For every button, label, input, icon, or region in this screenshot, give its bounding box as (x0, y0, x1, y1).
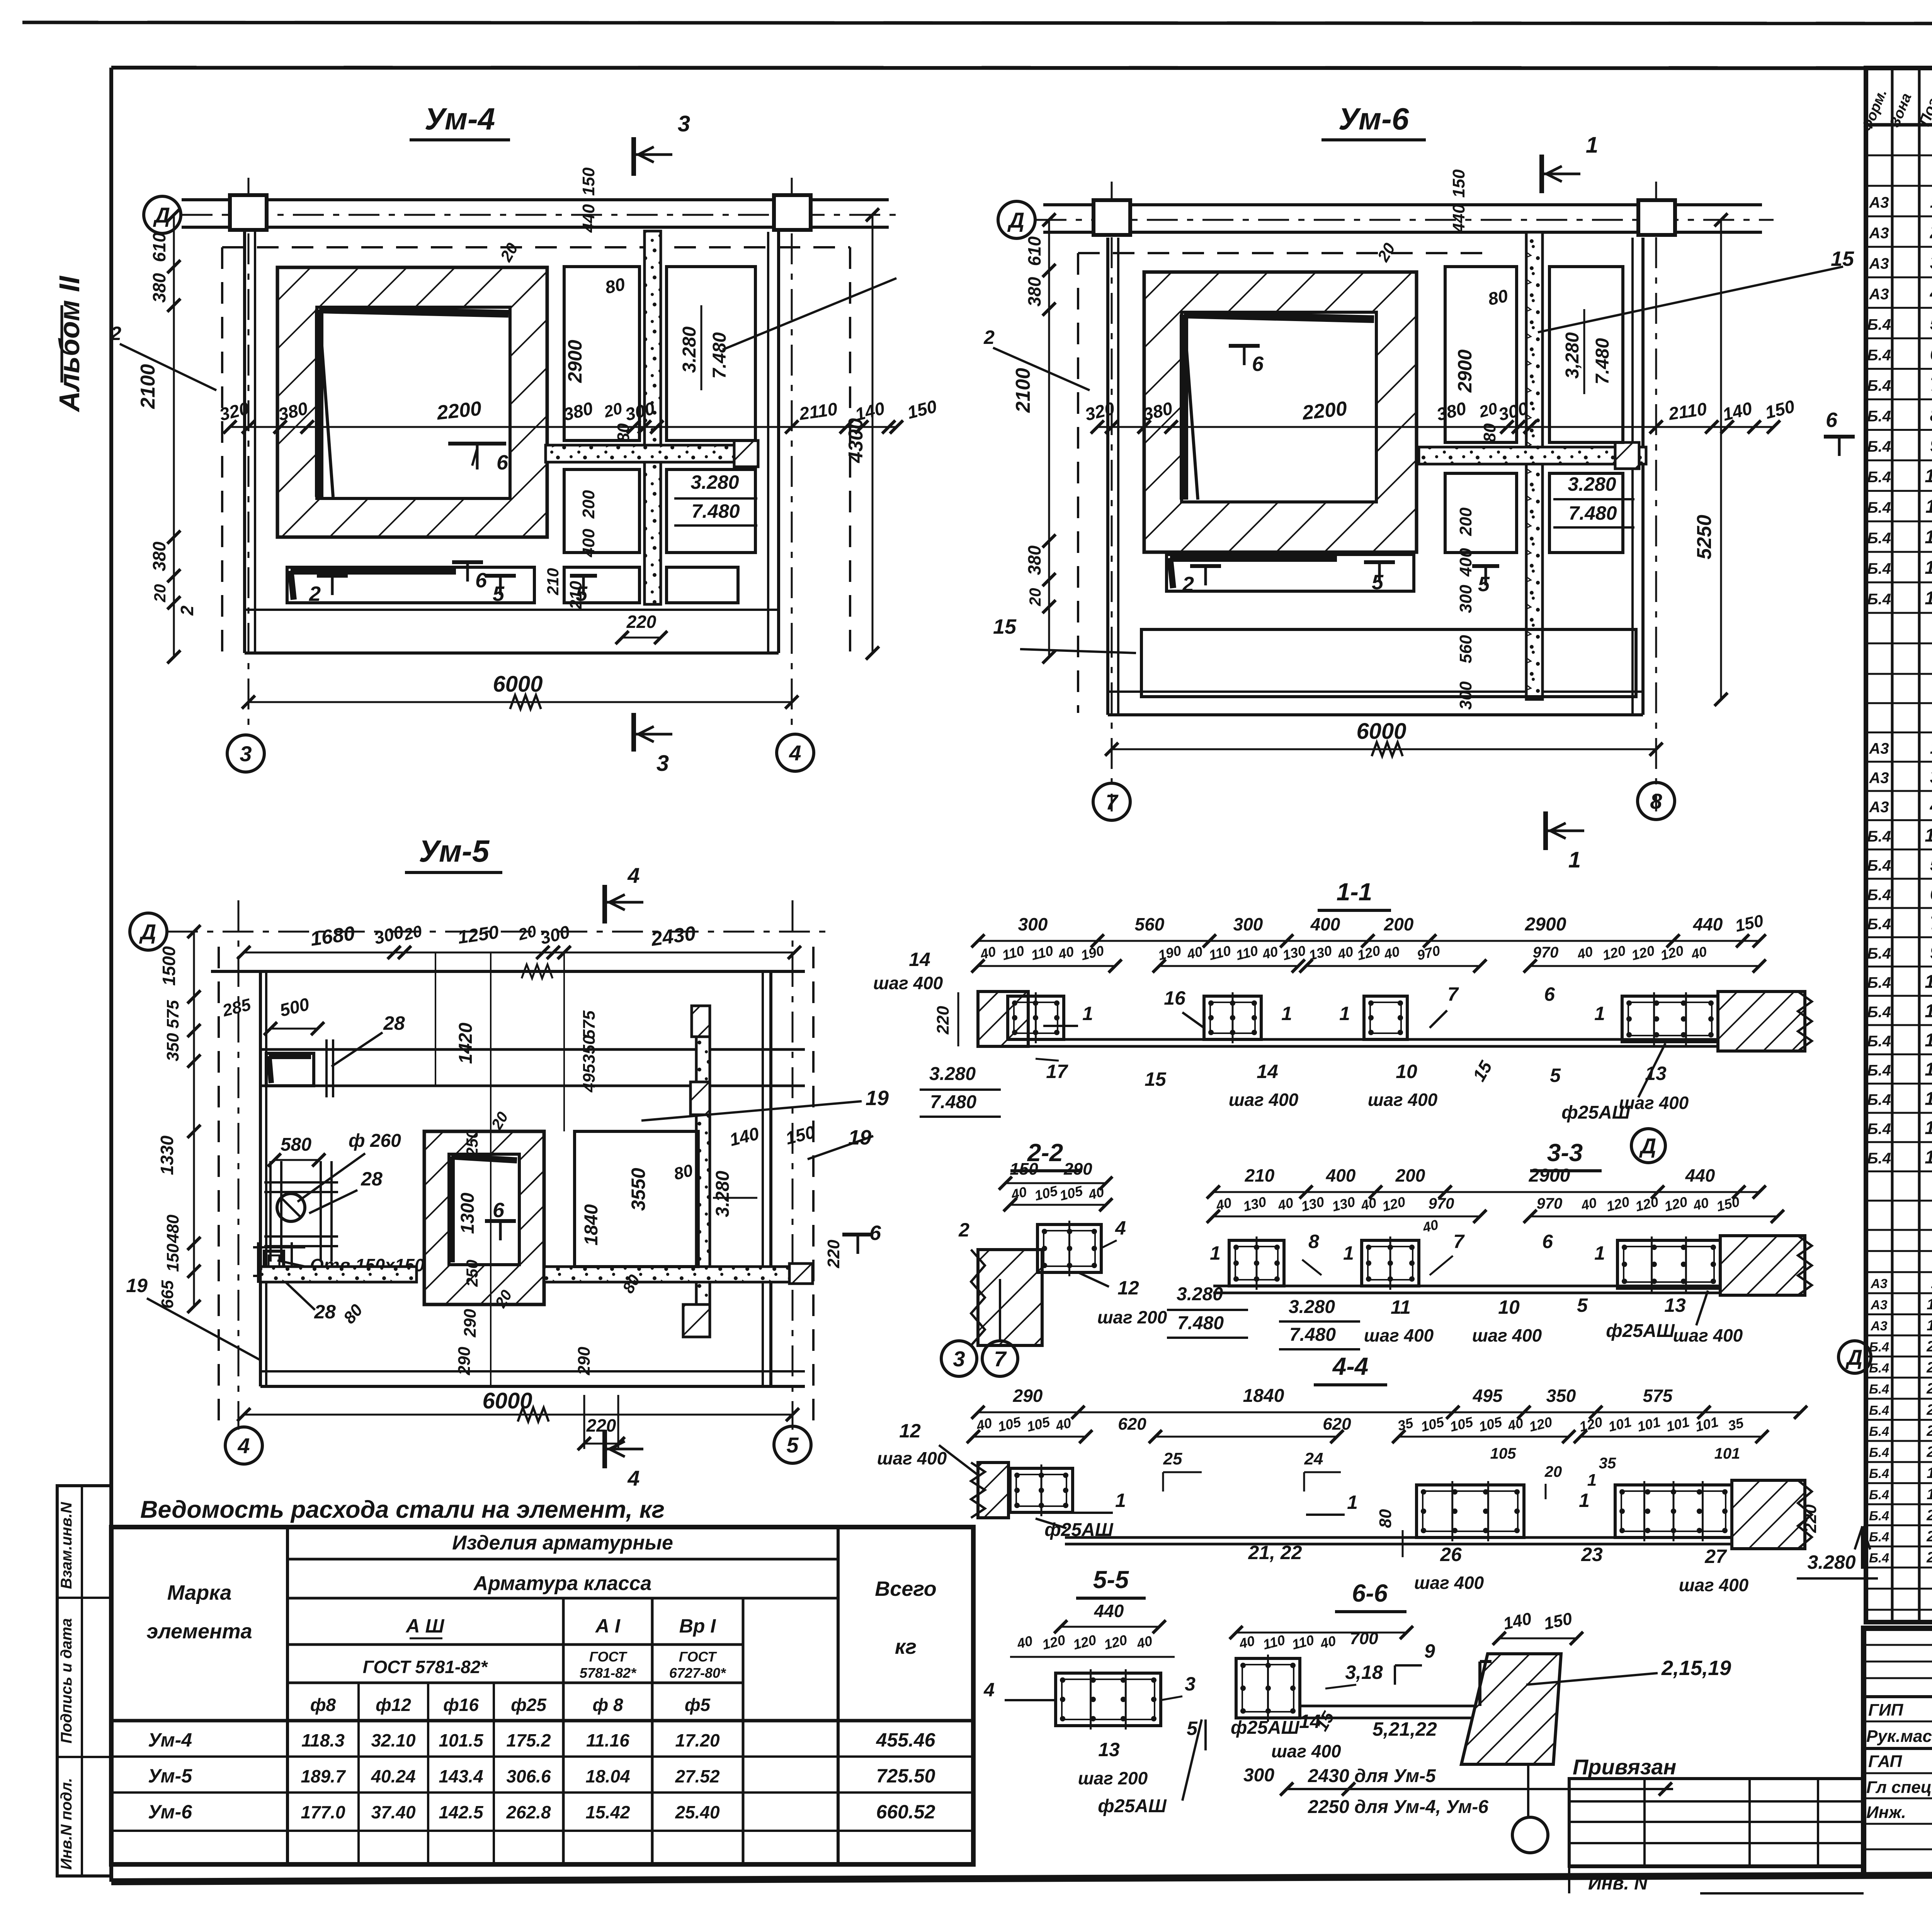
Um-4 middle concrete band vertical (645, 231, 661, 604)
svg-text:610: 610 (149, 232, 169, 262)
Um-5 band corner bar (266, 1053, 314, 1086)
svg-text:5: 5 (1550, 1065, 1561, 1086)
svg-text:2100: 2100 (137, 364, 159, 409)
Um-5 leader 19 right (641, 1101, 862, 1121)
svg-text:ф25АШ: ф25АШ (1098, 1796, 1167, 1816)
right table row lines (1866, 154, 1932, 156)
Um-6 6000 dim (1112, 748, 1656, 750)
Um-5 leader 28 top (332, 1032, 383, 1066)
svg-text:3: 3 (953, 1347, 965, 1371)
svg-text:14: 14 (1927, 1486, 1932, 1503)
svg-text:3: 3 (1185, 1673, 1196, 1695)
svg-text:970: 970 (1533, 944, 1559, 961)
svg-text:Ум-4: Ум-4 (425, 102, 495, 136)
svg-text:28: 28 (361, 1168, 383, 1190)
svg-text:40.24: 40.24 (371, 1766, 415, 1786)
svg-text:495: 495 (580, 1064, 599, 1093)
svg-text:шаг 400: шаг 400 (1673, 1325, 1743, 1345)
svg-text:350: 350 (580, 1035, 599, 1064)
Um-5 plan top edge (211, 970, 805, 973)
sec6-6 leader circle (1527, 1764, 1529, 1816)
svg-text:Б.4: Б.4 (1867, 828, 1891, 845)
svg-text:17: 17 (1925, 1030, 1932, 1051)
svg-text:101.5: 101.5 (439, 1730, 484, 1750)
svg-text:5: 5 (1577, 1294, 1588, 1316)
Um-5 band hatch patch top (692, 1006, 710, 1037)
svg-text:3.280: 3.280 (1289, 1297, 1335, 1317)
Um-6 top beam (1043, 203, 1762, 206)
svg-text:4: 4 (1930, 796, 1932, 816)
svg-text:Д: Д (1639, 1134, 1656, 1158)
svg-text:290: 290 (1013, 1386, 1043, 1406)
svg-text:220: 220 (824, 1240, 843, 1269)
sec1-1 cage 3 (1364, 996, 1407, 1039)
sec1-1 cage 2 (1204, 996, 1261, 1039)
svg-text:А3: А3 (1870, 1277, 1887, 1291)
svg-text:13: 13 (1664, 1294, 1686, 1316)
svg-text:200: 200 (579, 490, 598, 519)
Um-6 horizontal dim chain (1097, 426, 1774, 428)
svg-text:17: 17 (1046, 1061, 1068, 1082)
svg-text:7: 7 (1453, 1231, 1465, 1252)
svg-text:1: 1 (1930, 192, 1932, 212)
svg-text:1500: 1500 (159, 946, 179, 986)
svg-text:580: 580 (281, 1134, 311, 1155)
svg-text:4: 4 (627, 1466, 639, 1490)
svg-text:Б.4: Б.4 (1869, 1466, 1889, 1481)
svg-text:150: 150 (1449, 169, 1468, 198)
svg-text:14: 14 (1925, 588, 1932, 609)
svg-text:6: 6 (493, 1199, 505, 1222)
svg-text:шаг 400: шаг 400 (873, 973, 943, 993)
svg-text:1: 1 (1587, 1471, 1597, 1490)
svg-text:Б.4: Б.4 (1867, 1003, 1891, 1020)
svg-text:Б.4: Б.4 (1867, 916, 1891, 933)
Um-5 right wall (762, 971, 764, 1386)
Um-4 right wall lines (767, 232, 769, 653)
svg-text:А Ш: А Ш (405, 1615, 445, 1637)
svg-text:Б.4: Б.4 (1867, 1062, 1891, 1079)
sec6-6 cage (1236, 1658, 1300, 1718)
svg-text:4-4: 4-4 (1332, 1352, 1369, 1380)
Um-6 left dim chain (1048, 220, 1050, 657)
svg-text:18: 18 (1927, 1296, 1932, 1313)
svg-text:20: 20 (151, 584, 169, 603)
svg-text:10: 10 (1925, 466, 1932, 486)
svg-text:5: 5 (1187, 1718, 1198, 1739)
Um-4 top beam (182, 198, 889, 201)
svg-text:2: 2 (177, 605, 197, 616)
title block outer (1864, 1628, 1932, 1875)
svg-text:5-5: 5-5 (1093, 1566, 1129, 1594)
svg-text:610: 610 (1024, 236, 1044, 266)
svg-text:ф25АШ: ф25АШ (1044, 1520, 1114, 1540)
svg-text:440: 440 (579, 204, 598, 233)
svg-text:7: 7 (1447, 983, 1459, 1005)
axis circle 3 (941, 1341, 977, 1376)
svg-text:Б.4: Б.4 (1867, 560, 1891, 577)
Um-6 label 5 bottom (1364, 560, 1395, 564)
svg-text:15: 15 (1925, 972, 1932, 992)
sec4-4 second dims (973, 1436, 1086, 1438)
Um-6 label 5 small (1472, 564, 1499, 568)
svg-text:13: 13 (1925, 558, 1932, 578)
Um-5 right room rect (575, 1131, 698, 1267)
svg-text:24: 24 (1304, 1449, 1323, 1468)
Um-4 bottom small rects (564, 567, 639, 603)
sec2-2 cage (1037, 1225, 1101, 1272)
svg-text:Б.4: Б.4 (1867, 1091, 1891, 1108)
Um-4 4300 dim (872, 215, 874, 653)
Um-6 bottom wall (1108, 713, 1643, 716)
axis circle Д (1838, 1341, 1871, 1373)
sec1-1 second dim row (978, 965, 1115, 967)
svg-text:Б.4: Б.4 (1867, 1150, 1891, 1167)
Um-6 band right end block (1615, 442, 1639, 469)
sec4-4 slab bars (1065, 1536, 1739, 1539)
Um-4 opening thick edges (315, 310, 323, 497)
svg-text:6: 6 (475, 569, 487, 592)
svg-text:Ведомость расхода стали: Ведомость расхода стали на элемент, кг (140, 1496, 665, 1523)
svg-text:2250 для Ум-4, Ум-6: 2250 для Ум-4, Ум-6 (1308, 1797, 1488, 1817)
Um-6 section mark 1 bottom (1543, 811, 1548, 850)
Um-5 concrete band horizontal left (260, 1267, 417, 1282)
svg-text:Д: Д (1845, 1345, 1862, 1369)
svg-text:9: 9 (1930, 435, 1932, 456)
Um-4 column left (230, 195, 267, 230)
svg-text:19: 19 (1927, 1317, 1932, 1334)
sec3-3 right hatch (1720, 1236, 1805, 1295)
svg-text:шаг 400: шаг 400 (1364, 1325, 1434, 1345)
Um-5 axis 4 line (238, 900, 240, 1430)
svg-text:725.50: 725.50 (876, 1765, 935, 1787)
svg-text:5250: 5250 (1693, 515, 1716, 560)
svg-text:А3: А3 (1869, 255, 1889, 272)
svg-text:220: 220 (934, 1006, 952, 1035)
Um-6 leader 15 left (1020, 649, 1136, 653)
svg-text:Б.4: Б.4 (1867, 347, 1891, 364)
sec4-4 left hatch (978, 1463, 1009, 1518)
Um-6 slab dashed contour (1077, 253, 1079, 713)
Um-5 left dim chain (193, 932, 195, 1306)
Um-4 6000 dim (248, 701, 792, 703)
svg-text:А3: А3 (1870, 1298, 1887, 1312)
svg-text:8: 8 (1650, 789, 1662, 813)
Um-5 label 6 marker (485, 1219, 516, 1223)
svg-text:15.42: 15.42 (585, 1802, 630, 1822)
svg-text:Ум-6: Ум-6 (148, 1801, 192, 1823)
svg-text:2: 2 (110, 323, 121, 344)
svg-text:28: 28 (314, 1301, 336, 1323)
svg-text:ф 260: ф 260 (349, 1131, 401, 1151)
svg-text:300: 300 (1456, 585, 1475, 613)
svg-text:14: 14 (1925, 1147, 1932, 1168)
Um-6 label 6 markers (1229, 344, 1260, 348)
svg-text:12: 12 (1927, 1464, 1932, 1481)
Um-4 label 5 bottom (485, 574, 516, 578)
Um-4 axis 4 line (791, 178, 793, 734)
svg-text:3: 3 (240, 742, 252, 766)
svg-text:13: 13 (1098, 1739, 1120, 1760)
svg-text:2200: 2200 (435, 397, 483, 424)
svg-text:Инв. N: Инв. N (1588, 1873, 1648, 1894)
svg-text:1: 1 (1579, 1490, 1590, 1511)
svg-text:2200: 2200 (1301, 397, 1348, 424)
svg-text:27.52: 27.52 (675, 1766, 720, 1786)
svg-text:455.46: 455.46 (876, 1729, 936, 1751)
svg-text:21: 21 (1926, 1359, 1932, 1376)
svg-text:1: 1 (1210, 1242, 1221, 1264)
axis circle Д (1631, 1129, 1665, 1163)
sec1-1 left hatch block (978, 992, 1028, 1046)
svg-text:Б.4: Б.4 (1869, 1361, 1889, 1376)
svg-text:5: 5 (493, 582, 505, 605)
svg-text:12: 12 (1117, 1277, 1139, 1299)
svg-text:118.3: 118.3 (301, 1730, 345, 1750)
svg-text:5781-82*: 5781-82* (580, 1665, 637, 1681)
svg-text:Гл спец.: Гл спец. (1866, 1778, 1932, 1797)
vedomost rows (287, 1558, 838, 1561)
svg-text:Б.4: Б.4 (1867, 469, 1891, 486)
svg-text:9: 9 (1424, 1640, 1435, 1662)
svg-text:350: 350 (1546, 1386, 1576, 1406)
svg-text:350: 350 (163, 1033, 182, 1061)
svg-text:7.480: 7.480 (1568, 502, 1617, 524)
svg-text:4: 4 (1930, 283, 1932, 303)
svg-text:Б.4: Б.4 (1867, 408, 1891, 425)
svg-text:1-1: 1-1 (1337, 878, 1372, 906)
Um-5 dashed contour (218, 947, 220, 1430)
svg-text:300: 300 (1018, 914, 1048, 934)
sec1-1 slab bars (1028, 1038, 1734, 1041)
svg-text:150: 150 (579, 167, 598, 196)
svg-text:300: 300 (1243, 1765, 1274, 1786)
svg-text:25.40: 25.40 (675, 1802, 720, 1822)
svg-text:480: 480 (163, 1214, 182, 1243)
svg-text:19: 19 (126, 1275, 148, 1296)
svg-text:4: 4 (789, 741, 801, 765)
Um-4 axis D line (182, 214, 896, 216)
svg-text:элемента: элемента (146, 1620, 252, 1643)
svg-text:101: 101 (1714, 1445, 1740, 1462)
svg-text:5: 5 (1372, 571, 1384, 594)
svg-text:380: 380 (149, 273, 169, 303)
svg-text:А3: А3 (1869, 799, 1889, 816)
svg-text:2900: 2900 (1529, 1165, 1570, 1186)
svg-text:2: 2 (958, 1219, 969, 1241)
svg-text:Ум-4: Ум-4 (148, 1729, 192, 1751)
axis circle 3 (227, 735, 264, 772)
svg-text:6: 6 (1542, 1231, 1553, 1252)
Um-6 axis D line (1036, 219, 1774, 221)
svg-text:шаг 200: шаг 200 (1097, 1307, 1167, 1327)
svg-text:175.2: 175.2 (506, 1730, 551, 1750)
svg-text:ГОСТ 5781-82*: ГОСТ 5781-82* (363, 1657, 488, 1677)
svg-text:13: 13 (1925, 1118, 1932, 1138)
svg-text:290: 290 (1063, 1160, 1092, 1179)
svg-text:Б.4: Б.4 (1869, 1446, 1889, 1460)
axis circle 7 (982, 1341, 1018, 1376)
svg-text:620: 620 (1323, 1415, 1351, 1434)
sec6-6 step bar (1478, 1662, 1481, 1706)
axis circle 8 (1638, 782, 1675, 820)
svg-text:25: 25 (1163, 1449, 1182, 1468)
svg-text:7.480: 7.480 (1177, 1313, 1224, 1333)
svg-text:290: 290 (575, 1347, 594, 1376)
svg-text:Вр I: Вр I (679, 1615, 716, 1637)
svg-text:Марка: Марка (167, 1581, 232, 1604)
svg-text:Б.4: Б.4 (1867, 1121, 1891, 1138)
svg-text:6000: 6000 (1356, 719, 1406, 744)
Um-4 hatched opening ring (277, 267, 547, 537)
Um-5 extension lines (490, 952, 492, 1386)
svg-text:10: 10 (1498, 1296, 1520, 1318)
svg-text:575: 575 (163, 1000, 182, 1029)
svg-text:2: 2 (309, 582, 321, 605)
Um-4 label 2 bottom (317, 574, 348, 578)
svg-text:2900: 2900 (1454, 349, 1476, 393)
Um-5 block thick edges (448, 1156, 455, 1262)
svg-text:4: 4 (1115, 1217, 1126, 1239)
Um-5 axis 5 line (792, 900, 794, 1430)
svg-text:Д: Д (153, 203, 170, 227)
Um-5 concrete band horizontal right (544, 1267, 805, 1282)
svg-text:15: 15 (993, 615, 1017, 638)
left stamp boxes (57, 1486, 111, 1876)
svg-text:560: 560 (1456, 635, 1475, 663)
svg-text:143.4: 143.4 (439, 1766, 483, 1786)
svg-text:6: 6 (1930, 344, 1932, 364)
svg-text:575: 575 (580, 1010, 599, 1039)
Um-5 hatched block (424, 1131, 544, 1304)
Um-4 bottom wall (245, 651, 779, 655)
svg-text:6: 6 (497, 451, 509, 474)
svg-text:Б.4: Б.4 (1867, 945, 1891, 962)
Um-6 section mark 1 top (1539, 155, 1544, 193)
svg-text:7.480: 7.480 (709, 332, 730, 379)
right table column lines (1891, 68, 1894, 1622)
svg-text:1: 1 (1594, 1242, 1605, 1264)
svg-text:Ум-6: Ум-6 (1338, 102, 1409, 136)
svg-text:27: 27 (1704, 1546, 1727, 1567)
svg-text:Б.4: Б.4 (1869, 1424, 1889, 1439)
svg-text:1: 1 (1930, 738, 1932, 758)
svg-text:3.280: 3.280 (929, 1064, 976, 1084)
svg-text:6727-80*: 6727-80* (669, 1665, 726, 1681)
svg-text:142.5: 142.5 (439, 1802, 484, 1822)
svg-text:Б.4: Б.4 (1867, 499, 1891, 516)
svg-text:27: 27 (1926, 1528, 1932, 1545)
svg-text:6: 6 (1544, 983, 1555, 1005)
svg-text:2430 для Ум-5: 2430 для Ум-5 (1308, 1766, 1436, 1786)
svg-text:440: 440 (1693, 914, 1723, 934)
svg-text:210: 210 (1245, 1165, 1275, 1185)
Um-4 section mark 3 top (631, 137, 636, 176)
Um-4 opening inner window (317, 307, 510, 498)
svg-text:700: 700 (1350, 1629, 1378, 1648)
svg-text:15: 15 (1831, 247, 1854, 270)
Um-6 right wall lines (1631, 238, 1634, 715)
Um-4 leader 2 right (723, 278, 896, 350)
svg-text:220: 220 (1801, 1504, 1820, 1533)
axis circle 4 (225, 1427, 262, 1464)
svg-text:1: 1 (1586, 133, 1598, 158)
svg-text:ф8: ф8 (310, 1695, 336, 1715)
svg-text:105: 105 (1490, 1445, 1516, 1462)
Um-6 middle concrete band horizontal (1419, 447, 1646, 464)
Um-6 column right (1638, 200, 1675, 235)
svg-text:35: 35 (1599, 1455, 1616, 1472)
svg-text:380: 380 (149, 541, 169, 571)
frame bottom (111, 1872, 1932, 1882)
svg-text:560: 560 (1135, 914, 1165, 934)
svg-text:ф25АШ: ф25АШ (1231, 1718, 1300, 1738)
svg-text:2: 2 (1182, 573, 1194, 596)
svg-text:Привязан: Привязан (1573, 1755, 1676, 1779)
axis circle Д (130, 913, 167, 950)
Um-5 section mark 4 top (602, 885, 607, 923)
Um-5 band right hatch end (789, 1264, 813, 1284)
svg-text:А3: А3 (1869, 769, 1889, 786)
svg-text:200: 200 (1395, 1165, 1425, 1185)
svg-text:5: 5 (1930, 313, 1932, 334)
svg-text:200: 200 (1456, 507, 1475, 536)
svg-text:Изделия арматурные: Изделия арматурные (452, 1532, 673, 1554)
svg-text:Б.4: Б.4 (1869, 1382, 1889, 1397)
svg-text:А3: А3 (1869, 225, 1889, 242)
svg-text:Альбом II: Альбом II (53, 276, 85, 412)
Um-6 opening thick edges (1180, 315, 1188, 500)
svg-text:5: 5 (786, 1433, 799, 1457)
svg-text:10: 10 (1925, 1060, 1932, 1080)
svg-text:400: 400 (1310, 914, 1340, 934)
svg-text:8: 8 (1308, 1231, 1319, 1252)
svg-text:28: 28 (1926, 1549, 1932, 1566)
Um-5 section mark 4 bottom (602, 1430, 607, 1468)
svg-text:150: 150 (163, 1243, 182, 1272)
Um-4 left wall lines (243, 232, 246, 653)
axis circle 7 (1093, 783, 1130, 820)
sec6-6 dims (1236, 1632, 1406, 1634)
svg-text:Д: Д (139, 920, 156, 944)
svg-text:22: 22 (1926, 1380, 1932, 1397)
svg-text:Взам.инв.N: Взам.инв.N (58, 1502, 75, 1589)
svg-text:250: 250 (463, 1260, 481, 1287)
svg-text:Инж.: Инж. (1866, 1803, 1906, 1822)
svg-text:шаг 200: шаг 200 (1078, 1768, 1148, 1788)
sec4-4 cages (1010, 1468, 1073, 1512)
svg-text:7: 7 (1930, 374, 1932, 395)
svg-text:3,18: 3,18 (1345, 1662, 1383, 1683)
Um-4 leader 2 left (120, 344, 216, 390)
svg-text:3.280: 3.280 (690, 471, 739, 493)
svg-text:1: 1 (1568, 847, 1581, 872)
Um-4 band right hatched end (734, 440, 758, 467)
sec6-6 right hatch wedge (1461, 1654, 1561, 1764)
svg-text:400: 400 (1456, 548, 1475, 577)
Um-5 concrete band vertical (696, 1006, 710, 1304)
Um-6 left wall lines (1106, 238, 1109, 715)
Um-4 label 6 markers (448, 442, 506, 446)
svg-text:А3: А3 (1869, 194, 1889, 211)
svg-text:Б.4: Б.4 (1869, 1509, 1889, 1523)
svg-text:1840: 1840 (1243, 1386, 1284, 1406)
svg-text:8: 8 (1930, 405, 1932, 425)
svg-text:ГИП: ГИП (1868, 1701, 1904, 1719)
svg-text:262.8: 262.8 (506, 1802, 551, 1822)
svg-text:Ум-5: Ум-5 (419, 834, 490, 868)
svg-text:12: 12 (1925, 1088, 1932, 1109)
